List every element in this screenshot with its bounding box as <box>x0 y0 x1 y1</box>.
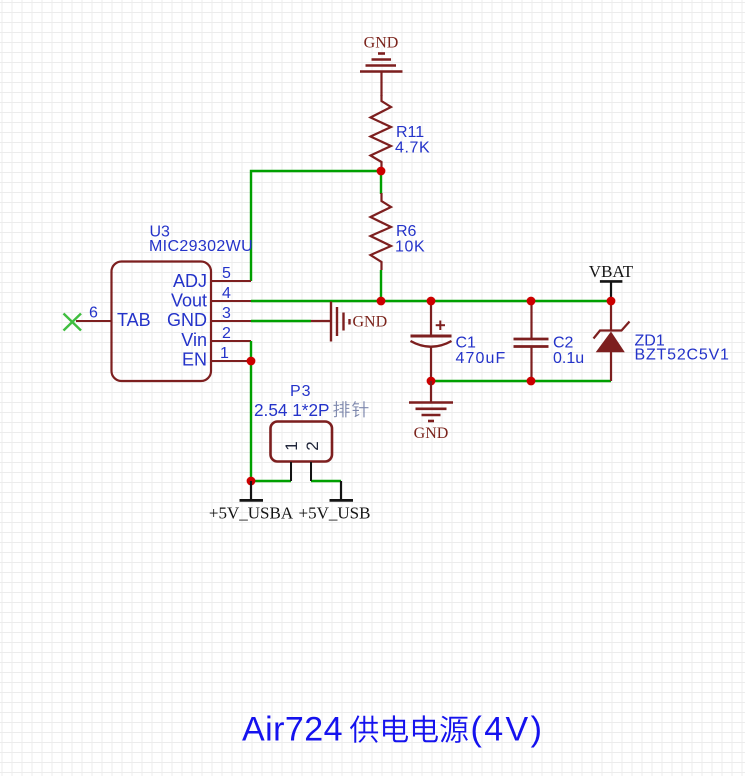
value glyph zhen (header) <box>352 401 368 417</box>
svg-text:GND: GND <box>167 310 207 330</box>
junction: C1 top <box>427 297 436 306</box>
junction: EN/Vin node <box>247 357 256 366</box>
svg-text:ADJ: ADJ <box>173 271 207 291</box>
label C2 0.1u <box>553 335 584 368</box>
wire: EN node down to +5V_USBA node <box>250 361 252 481</box>
svg-text:+5V_USBA: +5V_USBA <box>209 504 294 523</box>
ground symbol at U3 pin 3 (rotated right) <box>311 302 350 342</box>
wire: junction down to R6 <box>380 171 382 194</box>
wire: +5V_USBA node to P3 pin 1 <box>251 480 291 482</box>
svg-text:Vout: Vout <box>171 291 207 311</box>
resistor R11 <box>371 95 392 171</box>
wire: R6 bottom to Vout rail <box>380 270 382 301</box>
pin 4 Vout <box>211 300 251 302</box>
wire: pin 3 to ground symbol <box>251 320 311 322</box>
zener diode ZD1 <box>594 301 630 381</box>
label C1 470uF <box>456 335 507 368</box>
svg-text:1: 1 <box>220 345 229 362</box>
svg-text:R6: R6 <box>396 223 417 240</box>
svg-text:2: 2 <box>222 325 231 342</box>
svg-text:2: 2 <box>303 441 322 450</box>
junction: C2 bottom <box>527 377 536 386</box>
pin numbers 5 4 3 2 1 6 <box>89 265 231 362</box>
junction: R11/R6/ADJ node <box>377 167 386 176</box>
pin names ADJ Vout GND Vin EN TAB <box>117 271 207 370</box>
svg-text:(4V): (4V) <box>471 711 545 749</box>
svg-text:470uF: 470uF <box>456 350 507 367</box>
power flag +5V_USBA <box>240 481 264 500</box>
svg-text:6: 6 <box>89 305 98 322</box>
svg-text:EN: EN <box>182 350 207 370</box>
title glyph gong <box>350 715 378 742</box>
P3 pin numbers 1 2 (rotated) <box>282 441 322 450</box>
svg-text:GND: GND <box>414 425 449 442</box>
pin 3 GND <box>211 320 251 322</box>
svg-text:R11: R11 <box>396 124 424 141</box>
svg-text:BZT52C5V1: BZT52C5V1 <box>635 347 730 364</box>
title text Air724 power supply (4V) <box>242 711 544 749</box>
wire: ground rail C1-C2-ZD1 <box>431 380 611 382</box>
label R11 4.7K <box>395 124 430 157</box>
value glyph pai (header) <box>333 401 349 417</box>
op-amp/regulator U3 body <box>112 262 212 382</box>
svg-text:2.54 1*2P: 2.54 1*2P <box>254 400 330 420</box>
svg-text:C1: C1 <box>456 335 477 352</box>
svg-text:3: 3 <box>222 305 231 322</box>
svg-text:Air724: Air724 <box>242 711 343 749</box>
svg-text:MIC29302WU: MIC29302WU <box>149 238 253 255</box>
pin 5 ADJ <box>211 280 251 282</box>
junction: C1 bottom <box>427 377 436 386</box>
svg-text:4: 4 <box>222 285 231 302</box>
connector P3 body <box>271 422 333 462</box>
svg-text:VBAT: VBAT <box>589 262 634 281</box>
title glyph dian 2 <box>413 715 438 742</box>
P3 pin 1 lead <box>290 462 292 481</box>
title glyph yuan <box>440 716 468 743</box>
wire: Vin pin down to EN node <box>250 341 252 361</box>
P3 pin 2 lead <box>310 462 312 481</box>
svg-text:1: 1 <box>282 441 301 450</box>
ground symbol below C1 <box>409 381 453 421</box>
power flag VBAT <box>600 281 623 299</box>
svg-text:Vin: Vin <box>181 330 207 350</box>
svg-text:4.7K: 4.7K <box>395 140 430 157</box>
wire: Vout rail (pin 4 to VBAT) <box>251 300 611 302</box>
title glyph dian 1 <box>383 715 408 742</box>
wire: R11/R6 junction to ADJ pin (left and down) <box>251 171 381 281</box>
junction: +5V_USBA node <box>247 477 256 486</box>
svg-text:P3: P3 <box>290 383 312 400</box>
pin 1 EN <box>211 360 251 362</box>
capacitor C1 (polarized) <box>411 301 452 381</box>
junction: VBAT node <box>607 297 616 306</box>
svg-text:10K: 10K <box>395 239 425 256</box>
svg-text:TAB: TAB <box>117 310 151 330</box>
capacitor C2 <box>514 301 549 381</box>
svg-text:C2: C2 <box>553 335 574 352</box>
junction: C2 top <box>527 297 536 306</box>
wire: P3 pin 2 to +5V_USB stem <box>311 480 341 482</box>
svg-text:5: 5 <box>222 265 231 282</box>
resistor R6 <box>371 193 392 270</box>
label R6 10K <box>395 223 425 256</box>
pin 2 Vin <box>211 340 251 342</box>
pin 6 TAB <box>76 320 111 322</box>
svg-text:GND: GND <box>353 314 388 331</box>
label ZD1 BZT52C5V1 <box>635 333 730 364</box>
svg-text:GND: GND <box>364 35 399 52</box>
svg-text:0.1u: 0.1u <box>553 350 584 367</box>
no-connect cross on pin 6 <box>64 314 82 331</box>
junction: R6/Vout rail node <box>377 297 386 306</box>
power flag +5V_USB <box>330 481 354 500</box>
label U3 MIC29302WU <box>149 224 253 256</box>
ground flag GND (top, above R11) <box>360 54 403 97</box>
svg-text:+5V_USB: +5V_USB <box>299 504 371 523</box>
